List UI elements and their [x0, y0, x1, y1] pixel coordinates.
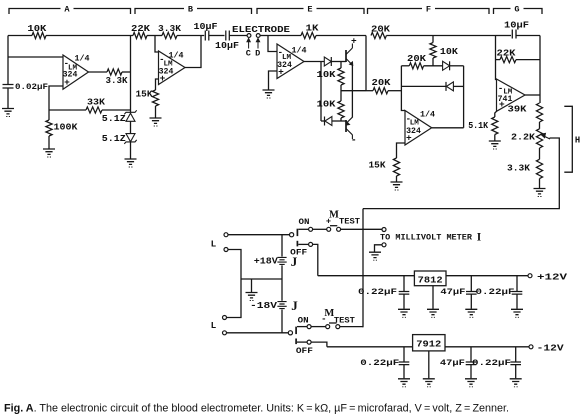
ground (0.02uF)	[2, 109, 14, 114]
wire op-amp E inverting input	[268, 36, 277, 52]
wire op-amp B non-inverting input	[156, 79, 159, 90]
wire OFF to -12V rail	[311, 342, 327, 347]
svg-text:I: I	[477, 231, 482, 243]
wire output net vertical	[362, 209, 364, 328]
wire op-amp A non-inverting input	[49, 86, 63, 110]
switch S1 ON contact	[309, 227, 313, 231]
wire diode D4 to right vertical	[453, 85, 463, 87]
op-amp U2 LM741	[497, 79, 526, 111]
wire OFF to +12V rail	[313, 244, 318, 275]
wire op-amp A inverting input	[8, 56, 63, 58]
resistor 33K (feedback)	[86, 107, 102, 113]
wire emitters to node F	[341, 90, 366, 92]
svg-text:0.22µF: 0.22µF	[476, 287, 515, 297]
wire 7812 ground pin	[432, 286, 434, 309]
svg-text:L: L	[211, 320, 217, 331]
ground (7812)	[427, 309, 439, 314]
svg-text:E: E	[307, 5, 312, 15]
svg-text:0.22µF: 0.22µF	[360, 358, 399, 368]
wire 15K to ground	[396, 176, 398, 182]
wire battery midpoint	[241, 278, 282, 280]
svg-text:1/4: 1/4	[168, 51, 183, 61]
svg-text:C: C	[246, 49, 251, 59]
svg-text:OFF: OFF	[290, 247, 307, 257]
electrode terminal C	[247, 34, 251, 38]
svg-text:20K: 20K	[371, 25, 391, 35]
ground (15K section F)	[391, 182, 403, 187]
wire 10K to PNP base	[340, 118, 342, 122]
wire L4 to switch	[227, 332, 289, 334]
switch S2 ON contact	[307, 325, 311, 329]
wire 20K to 10K junction	[424, 65, 443, 67]
meter terminal (+)	[382, 228, 386, 232]
svg-text:TEST: TEST	[334, 316, 355, 325]
svg-text:B: B	[188, 5, 193, 15]
resistor 10K lower (bias)	[338, 101, 344, 118]
svg-text:+: +	[278, 67, 284, 78]
svg-text:1/4: 1/4	[291, 46, 306, 56]
wire test switch M2 to output net	[340, 326, 363, 328]
wire op-amp E output	[304, 61, 324, 63]
wire diode D2 to base	[332, 120, 346, 122]
capacitor 47uF (-)	[470, 347, 472, 362]
wire regulator to +12V	[446, 275, 528, 277]
wire 10K to 22K	[46, 35, 133, 37]
capacitor 47uF (+)	[470, 276, 472, 291]
wire node F to 20K	[366, 90, 373, 92]
wire battery stack top	[281, 235, 283, 257]
wire 15K to ground	[155, 106, 157, 118]
capacitor 0.22uF (7912 out)	[515, 347, 517, 362]
battery -18V	[277, 302, 286, 309]
capacitor 10uF first	[205, 31, 209, 41]
pot wiper arrow	[544, 136, 550, 139]
resistor 22K	[133, 32, 147, 38]
terminal L4	[223, 331, 227, 335]
diode D3 (feedback)	[443, 61, 450, 70]
wire diode D1 to base	[331, 61, 346, 63]
wire pot to 3.3K	[539, 148, 541, 159]
svg-text:5.1K: 5.1K	[468, 121, 489, 131]
wire top rail left	[8, 35, 32, 37]
svg-text:3.3K: 3.3K	[158, 24, 182, 34]
zener diode 5.1Z upper	[124, 110, 136, 114]
wire ON to test switch M	[313, 228, 327, 230]
wire 22K to 3.3K	[147, 35, 162, 37]
resistor 10K (input)	[32, 32, 46, 38]
svg-text:2.2K: 2.2K	[511, 133, 536, 143]
resistor 22K (section G feedback)	[496, 59, 501, 61]
wire between 10K resistors	[340, 85, 342, 101]
svg-text:TO MILLIVOLT METER: TO MILLIVOLT METER	[380, 234, 472, 243]
svg-text:+: +	[160, 73, 166, 84]
resistor 15K (section B)	[152, 90, 158, 106]
wire feedback right vertical	[463, 66, 465, 128]
svg-text:10K: 10K	[440, 47, 459, 57]
wire rail to section G	[433, 35, 496, 37]
meter terminal (-)	[382, 243, 386, 247]
svg-text:0.22µF: 0.22µF	[358, 287, 397, 297]
svg-text:G: G	[514, 5, 519, 15]
diode D2 (from PNP base)	[324, 117, 326, 126]
wire op-amp E non-inverting input	[269, 71, 278, 90]
resistor 20K (feedback)	[409, 63, 423, 69]
resistor 1K	[301, 32, 316, 38]
wire node F vertical	[365, 36, 367, 91]
wire test switch to meter	[341, 228, 382, 230]
svg-text:20K: 20K	[372, 78, 392, 88]
ground (47uF -)	[465, 379, 477, 384]
op-amp U1b LM324 1/4	[159, 51, 186, 85]
wire 3.3K to ground	[539, 179, 541, 188]
svg-text:3.3K: 3.3K	[106, 76, 129, 86]
wire feedback row	[49, 109, 86, 111]
ground (100K)	[43, 149, 55, 154]
wire L1 to switch	[228, 234, 290, 236]
terminal L3	[223, 316, 227, 320]
svg-text:+: +	[326, 217, 331, 227]
op-amp U1a LM324 1/4	[63, 55, 89, 89]
svg-text:10µF: 10µF	[194, 22, 218, 32]
wire +rail to regulator	[318, 275, 415, 277]
section bracket E	[257, 9, 364, 15]
svg-text:15K: 15K	[136, 90, 154, 100]
resistor 3.3K (op-amp A output)	[107, 69, 122, 75]
battery +18V	[277, 257, 286, 264]
wire emitters junction	[351, 65, 353, 118]
wire 20K to inverting node	[388, 90, 401, 92]
switch S2 OFF contact	[307, 340, 311, 344]
svg-text:33K: 33K	[87, 98, 106, 108]
diode D1 (to NPN base)	[324, 57, 331, 66]
svg-text:3.3K: 3.3K	[507, 164, 531, 174]
transistor Q1 NPN	[345, 50, 347, 62]
switch M (- TEST)	[326, 325, 330, 329]
resistor 10K upper (bias)	[340, 62, 342, 69]
switch S1 common	[290, 233, 294, 237]
ground (op-amp E)	[263, 90, 275, 95]
wire between 10uF caps	[209, 35, 225, 37]
ground (7912)	[423, 379, 435, 384]
wire electrode D to node	[260, 35, 268, 37]
wire op-amp G output	[525, 94, 540, 96]
capacitor 0.22uF (7812 out)	[516, 276, 518, 291]
wire cap to electrode C	[229, 35, 247, 37]
wire meter to ground	[375, 245, 383, 252]
wire op-amp B output	[185, 36, 201, 68]
ground (0.22uF in)	[398, 309, 410, 314]
wire node B vertical	[130, 36, 132, 113]
ground (0.22uF in -)	[398, 379, 410, 384]
svg-text:J: J	[291, 298, 298, 313]
wire -rail to regulator	[327, 346, 413, 348]
wire 1K to node F	[316, 35, 366, 37]
wire pot wiper to output net	[363, 138, 559, 209]
svg-text:47µF: 47µF	[440, 358, 465, 368]
svg-text:-12V: -12V	[537, 343, 565, 354]
svg-text:F: F	[426, 5, 431, 15]
wire op-amp B inverting input	[155, 36, 159, 53]
svg-text:Fig. A. The electronic circuit: Fig. A. The electronic circuit of the bl…	[4, 403, 509, 415]
svg-text:5.1Z: 5.1Z	[102, 134, 126, 144]
capacitor 10uF (section G)	[496, 35, 512, 37]
wire op-amp G non-inverting to 5.1K	[495, 111, 497, 117]
ground (47uF +)	[465, 309, 477, 314]
ground (5.1K)	[489, 141, 501, 146]
capacitor 0.02uF	[3, 85, 14, 89]
switch S2 common	[288, 331, 292, 335]
svg-text:ON: ON	[298, 315, 309, 325]
section bracket G	[494, 9, 543, 15]
capacitor 10uF second	[226, 31, 230, 41]
svg-text:0.02µF: 0.02µF	[15, 82, 48, 92]
ground (0.22uF out -)	[510, 379, 522, 384]
wire op-amp F output	[432, 127, 464, 129]
wire 3.3K to node	[122, 71, 131, 73]
svg-text:TEST: TEST	[339, 218, 360, 227]
svg-text:+18V: +18V	[254, 257, 279, 267]
svg-text:-18V: -18V	[250, 301, 278, 311]
op-amp U1d LM324 1/4	[405, 111, 432, 146]
wire 20K to 10K node	[386, 35, 433, 37]
wire op-amp F non-inverting input	[397, 143, 406, 158]
svg-text:10µF: 10µF	[215, 41, 239, 51]
svg-text:15K: 15K	[369, 161, 387, 171]
svg-text:D: D	[255, 49, 260, 59]
wire midpoint ground tap	[251, 279, 253, 292]
wire battery stack bottom	[281, 310, 283, 333]
wire 5.1K to ground	[494, 135, 496, 141]
svg-text:22K: 22K	[131, 24, 151, 34]
wire 39K to pot	[539, 122, 541, 129]
ground (0.22uF out)	[511, 309, 523, 314]
svg-text:1/4: 1/4	[420, 110, 435, 120]
svg-text:+: +	[406, 133, 412, 144]
wire regulator to -12V	[445, 346, 529, 348]
svg-text:+: +	[351, 36, 357, 47]
resistor 20K (top rail)	[371, 32, 386, 38]
svg-text:7812: 7812	[418, 274, 443, 285]
wire between zeners	[130, 121, 132, 133]
svg-text:7912: 7912	[416, 339, 441, 350]
resistor 5.1K	[492, 117, 498, 135]
svg-text:5.1Z: 5.1Z	[102, 114, 126, 124]
wire feedback lower row	[401, 85, 446, 87]
ground (zeners)	[125, 159, 137, 164]
wire feedback top row	[401, 65, 409, 67]
potentiometer 2.2K	[536, 129, 542, 148]
svg-text:20K: 20K	[407, 54, 427, 64]
wire 7912 ground pin	[428, 351, 430, 378]
terminal -12V	[529, 345, 533, 349]
capacitor 0.22uF (7812 in)	[403, 276, 405, 291]
svg-text:A: A	[64, 5, 70, 15]
wire feedback left vertical	[401, 66, 405, 111]
ground (3.3K)	[534, 189, 546, 194]
diode D4 (feedback)	[445, 82, 447, 91]
svg-text:ELECTRODE: ELECTRODE	[232, 24, 290, 35]
wire output junction vertical	[320, 62, 322, 122]
svg-text:0.22µF: 0.22µF	[472, 358, 511, 368]
electrode terminal D	[256, 34, 260, 38]
arrow to C	[248, 41, 250, 49]
wire section G left vertical	[496, 36, 497, 80]
regulator 7912	[413, 335, 445, 351]
svg-text:10K: 10K	[317, 100, 337, 110]
resistor 39K	[536, 103, 542, 122]
svg-text:1/4: 1/4	[74, 54, 89, 64]
resistor 100K	[48, 110, 50, 120]
ground (meter)	[369, 252, 381, 257]
resistor 3.3K (section B)	[162, 32, 177, 38]
transistor Q2 PNP	[345, 120, 347, 132]
section bracket A	[9, 9, 131, 15]
svg-text:ON: ON	[299, 217, 310, 227]
svg-text:+: +	[499, 99, 505, 110]
wire cap to ground	[7, 88, 9, 108]
svg-text:100K: 100K	[54, 123, 79, 133]
section bracket F	[368, 9, 490, 15]
terminal L1	[224, 233, 228, 237]
ground (battery midpoint)	[246, 293, 258, 298]
switch M (+ TEST)	[327, 227, 331, 231]
terminal +12V	[528, 274, 532, 278]
wire between batteries	[281, 265, 283, 301]
svg-text:OFF: OFF	[296, 346, 313, 356]
svg-text:22K: 22K	[497, 49, 517, 59]
capacitor 0.22uF (7912 in)	[403, 347, 405, 362]
svg-text:+12V: +12V	[537, 271, 568, 282]
ground (15K section B)	[150, 118, 162, 123]
op-amp U1c LM324 1/4	[277, 44, 304, 79]
switch S1 throw contacts	[296, 229, 298, 236]
resistor 20K (to op-amp F)	[373, 88, 388, 94]
arrow to D	[257, 41, 259, 49]
wire op-amp A output	[89, 71, 108, 73]
svg-text:10µF: 10µF	[504, 21, 529, 31]
resistor 3.3K (section G)	[536, 159, 542, 178]
svg-text:-: -	[321, 314, 326, 324]
wire node to 1K	[268, 35, 301, 37]
wire lower diode row	[321, 120, 325, 122]
wire diode D3 to right vertical	[450, 65, 464, 67]
zener diode 5.1Z lower	[126, 134, 135, 142]
resistor 15K (section F)	[393, 158, 399, 176]
svg-text:10K: 10K	[317, 70, 337, 80]
terminal L2	[224, 248, 228, 252]
wire zener to ground	[130, 142, 132, 158]
resistor 10K (from rail)	[432, 36, 434, 43]
svg-text:+: +	[64, 77, 70, 88]
switch S1 OFF contact	[309, 242, 313, 246]
svg-text:10K: 10K	[27, 24, 47, 34]
svg-text:1K: 1K	[306, 24, 320, 34]
wire L2 to midpoint net	[227, 250, 241, 318]
svg-text:47µF: 47µF	[440, 287, 465, 297]
wire ON to test switch M2	[311, 326, 325, 328]
svg-text:39K: 39K	[508, 105, 528, 115]
regulator 7812	[414, 271, 446, 286]
switch S2 throw contacts	[295, 327, 297, 335]
wire 3.3K to cap	[177, 35, 204, 37]
wire 33K to node	[102, 109, 131, 111]
wire section G right vertical	[539, 36, 541, 104]
section bracket B	[135, 9, 252, 15]
svg-text:L: L	[211, 238, 217, 249]
svg-text:-: -	[351, 136, 357, 147]
output bracket H	[564, 106, 572, 172]
svg-text:H: H	[575, 136, 580, 146]
wire node left vertical	[7, 36, 9, 85]
